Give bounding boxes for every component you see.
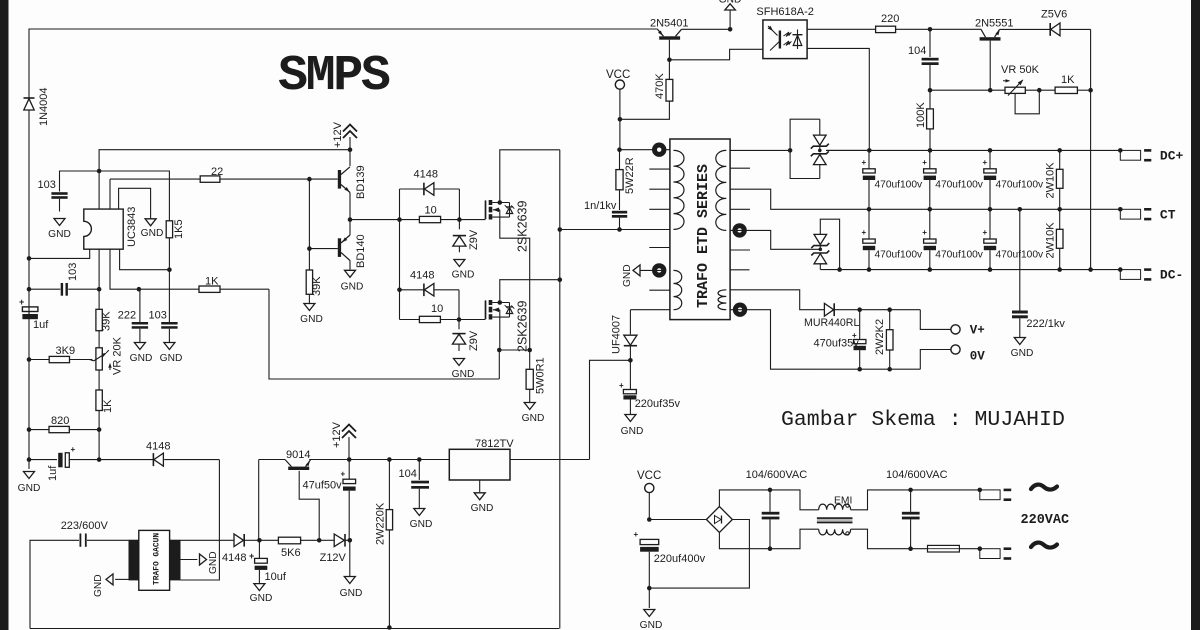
node 1K fb right [1088,88,1093,93]
label V+ [970,324,985,338]
svg-text:100K: 100K [915,102,927,128]
label Z9V upper [468,229,480,250]
label 1uf [33,319,49,331]
capacitor 10uf [255,540,268,583]
label 2W220K [375,502,387,545]
svg-text:220VAC: 220VAC [1021,513,1070,528]
svg-text:470uf100v: 470uf100v [996,180,1044,191]
wire gate combo right vertical upper [458,189,460,229]
wire vcc down [619,119,621,149]
wire UC3843 isense pin [110,249,139,289]
svg-text:103: 103 [149,310,167,322]
wire UC3843 fb pin down [98,249,100,289]
wire 220 to 5551 [930,28,981,30]
wire left rail mid [28,258,30,459]
svg-text:4148: 4148 [414,169,438,181]
label 220uf35v [635,398,681,410]
capacitor 1uf polarized on left rail [19,297,38,319]
title SMPS [278,48,390,105]
node snubber bottom [617,227,622,232]
transformer stub l5 [649,289,670,291]
ground Z12V node [340,540,363,599]
terminal DC+ [1118,148,1151,160]
wire 4148 to gacun [181,460,220,580]
node 820 right [97,427,102,432]
svg-text:GND: GND [130,353,153,364]
node dcplus c [988,148,993,153]
svg-text:Z5V6: Z5V6 [1041,9,1067,21]
wire UC3843 gnd pin [119,188,151,219]
node vcc bridge [647,517,652,522]
label 100K [915,102,927,128]
resistor 5W22R snubber [616,150,623,210]
svg-text:UC3843: UC3843 [126,207,138,247]
wire ac bottom rail [719,529,818,549]
resistor 100K [927,90,934,149]
wire left rail lower to GND [28,460,30,469]
label 4148 supply [222,551,254,564]
label 222 [118,310,136,322]
wire +12V rail bottom [309,459,449,461]
wire base bus [308,179,310,270]
svg-text:2W10K: 2W10K [1045,162,1057,199]
svg-text:4148: 4148 [222,552,246,564]
wire top rail [29,28,658,30]
resistor 820 [29,426,99,432]
node dcm b [928,267,933,272]
label 2W10K lower [1045,222,1057,259]
capacitor 1n/1kv [612,211,627,230]
svg-text:2N5401: 2N5401 [650,18,689,30]
wire aux top to gnd [640,269,666,271]
label 223/600V [61,520,109,532]
label 103 series [67,263,79,281]
label SFH618A-2 [756,6,813,18]
label BD140 [355,234,367,268]
node drain bus fet2 [558,277,563,282]
capacitor 470uf100v c4 [862,209,923,269]
node pot right [1037,88,1042,93]
ground of 103 decoupling [48,219,71,241]
label 4148 aux [146,441,170,453]
ground left rail [18,472,41,495]
diode 4148 supply [234,534,259,547]
svg-text:GND: GND [341,282,364,293]
svg-text:223/600V: 223/600V [61,520,109,532]
svg-text:220uf400v: 220uf400v [654,553,706,565]
node gate upper [457,217,462,222]
svg-text:104/600VAC: 104/600VAC [746,469,808,481]
capacitor 103 decoupling [51,192,67,211]
label 820 [51,415,69,427]
label 5W0R1 [535,357,547,394]
node 10uf [257,538,262,543]
potentiometer VR 20K [89,348,112,370]
svg-text:470uf100v: 470uf100v [935,180,983,191]
op-amp U1 UC3843 body [84,209,123,249]
wire pot to 1K [1025,89,1055,91]
transformer stub r1 [730,167,750,169]
node 0v b [887,367,892,372]
transistor Q1 2SK2639 upper mosfet [486,200,515,220]
capacitor 103 series on fb line [29,283,99,296]
wire ac top rail [719,490,818,510]
node gnd top [728,27,733,32]
transistor Q2 2SK2639 lower mosfet [486,300,515,320]
svg-text:+: + [19,297,24,307]
resistor 39K base [306,270,312,303]
wire 1K5 bottom [120,238,170,270]
ground gacun left [93,574,113,597]
diode 4148 gate upper [400,183,460,196]
wire BD139 base [309,178,337,180]
node dcm d [1057,267,1062,272]
node ct b [928,207,933,212]
ground of 222 [130,343,153,365]
label 104 fb [908,45,926,57]
wire gate upper to fet [459,219,485,221]
capacitor 470uf100v c1 [862,150,923,209]
label UF4007 [611,315,623,354]
resistor 1K5 [166,221,172,238]
transformer stub l3 [649,208,670,210]
svg-text:9014: 9014 [286,449,310,461]
svg-text:+: + [634,530,639,539]
node gate in lower [397,288,402,293]
optocoupler internals [768,26,803,51]
svg-text:3K9: 3K9 [56,345,76,357]
label 1K fb [1061,74,1075,86]
resistor 1K bottom [96,390,102,430]
svg-text:Z9V: Z9V [468,330,480,351]
node source bus b [527,348,532,353]
wire gate combo left vertical [399,189,401,320]
svg-text:+: + [71,445,76,454]
svg-text:10uf: 10uf [265,571,287,583]
right page border bar [1191,0,1200,630]
svg-text:+12V: +12V [331,421,343,448]
wire gate combo right vertical lower [458,290,460,330]
svg-text:470uf100v: 470uf100v [875,250,923,261]
ground gacun right [200,551,220,574]
svg-text:SMPS: SMPS [278,48,390,105]
wire 0v run [814,368,920,370]
svg-text:+12V: +12V [332,121,344,148]
label 470uf35v [814,338,860,350]
svg-text:5K6: 5K6 [281,547,301,559]
wire feedback top [730,290,825,310]
capacitor 470uf100v c6 [983,209,1044,269]
transformer stub l2 [649,188,670,190]
node ct d [1018,207,1023,212]
transistor Q BD140 [338,220,350,270]
label DC+ [1160,149,1184,164]
label 10uf [265,571,287,583]
svg-text:2W10K: 2W10K [1045,222,1057,259]
svg-text:GND: GND [622,264,633,287]
svg-text:Z12V: Z12V [320,552,347,564]
potentiometer VR 50K [1003,79,1039,114]
label 22 [211,166,223,178]
wire vr50k rail [930,89,1005,91]
label MUR440RL [804,317,859,329]
label 4148 gate upper [414,169,438,181]
wire gacun left bottom to ground [115,578,128,580]
wire ct tap [730,189,869,209]
ground aux [622,264,640,287]
svg-text:Z9V: Z9V [468,229,480,250]
transformer pin feedback bottom [733,303,747,317]
node dcm a [867,267,872,272]
capacitor 220uf35v [619,381,636,414]
terminal 0V [920,345,960,369]
wire opto out bottom [807,48,869,149]
svg-text:7812TV: 7812TV [475,438,514,450]
terminal DC- [1118,267,1151,279]
svg-text:4148: 4148 [410,270,434,282]
ground 222/1kv [1011,338,1034,360]
capacitor 104/600VAC 1 [762,490,780,549]
svg-text:GND: GND [410,519,433,530]
svg-text:222/1kv: 222/1kv [1026,318,1065,330]
svg-text:TRAFO GACUN: TRAFO GACUN [153,533,162,585]
node vplus a [857,307,862,312]
label 1K isense [205,276,219,288]
svg-text:+: + [922,228,927,237]
wire base to opto [669,49,763,60]
ground BD140 [341,270,364,292]
svg-text:BD140: BD140 [355,234,367,268]
svg-text:GND: GND [719,0,742,6]
svg-text:22: 22 [211,166,223,178]
wire UC3843 comp pin to left rail [29,249,90,258]
wire left rail upper [28,29,30,99]
transistor Q BD139 [338,150,350,220]
power +12V arrow bottom [342,425,356,460]
wire UC3843 vref to driver rail [99,150,350,209]
svg-text:+: + [983,158,988,167]
inductor EMI choke top [819,504,851,510]
power VCC top terminal [606,69,630,119]
svg-text:820: 820 [51,415,69,427]
label 2SK2639 lower [516,301,530,352]
wire vcc to bridge [649,519,706,521]
label Z5V6 [1041,9,1067,21]
node driver out [348,217,353,222]
resistor 10 upper [400,216,460,222]
node 0v a [857,367,862,372]
svg-text:GND: GND [1011,348,1034,359]
node rect neg loop [837,267,842,272]
label 4148 gate lower [410,270,434,282]
svg-text:2SK2639: 2SK2639 [516,301,530,352]
wire feedback bottom [730,310,814,370]
wire z5v6 down to dcminus [1090,29,1092,267]
transformer aux winding left [674,270,682,309]
wire source bus [499,349,529,351]
svg-text:103: 103 [67,263,79,281]
svg-text:SFH618A-2: SFH618A-2 [756,6,813,18]
inductor EMI choke bottom [819,529,851,535]
diode 4148 gate lower [400,284,460,297]
svg-text:+: + [249,551,254,561]
label 1K5 [173,219,185,239]
transformer stub l4 [649,247,670,249]
label 2W2K2 [874,319,886,355]
resistor 3K9 [29,356,92,362]
svg-text:1N4004: 1N4004 [38,87,50,126]
svg-text:1uf: 1uf [33,319,49,331]
svg-text:DC+: DC+ [1160,149,1184,164]
label 470K [654,73,666,99]
svg-text:GND: GND [452,270,475,281]
label 47uf50v [303,480,343,492]
wire 9014 base [299,471,319,540]
label 104 reg [399,468,417,480]
label 2W10K upper [1045,162,1057,199]
label VR 50K [1001,64,1040,76]
capacitor 220uf400v [634,530,659,588]
svg-text:5W0R1: 5W0R1 [535,357,547,394]
svg-text:1K5: 1K5 [173,219,185,239]
wire 7812 output [510,459,590,461]
wire fet1 drain riser [500,150,560,203]
diode UF4007 [624,310,670,389]
terminal AC neutral [978,546,1012,558]
label BD139 [355,165,367,199]
svg-text:DC-: DC- [1160,268,1183,283]
transformer feedback winding right [718,290,726,310]
capacitor 470uf100v c2 [922,150,983,209]
capacitor 104 fb [922,29,939,90]
wire rect pos out [826,149,869,151]
wire ac bottom to fuse [851,529,928,549]
label 103 decoupling [38,179,56,191]
node fb junction [97,287,102,292]
transistor Q 2N5401 [658,29,731,39]
wire drain bus vertical [559,150,561,629]
terminal V+ [920,310,960,334]
svg-text:220uf35v: 220uf35v [635,398,681,410]
node ac bot cap1 [768,546,773,551]
node ac top cap1 [768,488,773,493]
svg-text:470uf100v: 470uf100v [875,180,923,191]
label 5K6 [281,547,301,559]
capacitor 47uf50v [341,460,356,541]
label UC3843 [126,207,138,247]
transformer stub l1 [649,168,670,170]
svg-text:Gambar Skema : MUJAHID: Gambar Skema : MUJAHID [781,408,1065,432]
label 222/1kv [1026,318,1065,330]
wire gacun right top [181,539,235,541]
svg-text:MUR440RL: MUR440RL [804,317,859,329]
svg-text:GND: GND [621,426,644,437]
svg-text:CT: CT [1160,208,1176,223]
capacitor 222/1kv [1012,209,1028,337]
wire fet1 source path [500,217,530,350]
svg-text:2W2K2: 2W2K2 [874,319,886,355]
capacitor 103 on comp [161,270,177,342]
diode 4148 aux [99,453,219,466]
label CT [1160,208,1176,223]
node 220 out [928,27,933,32]
resistor 2W2K2 [886,310,893,370]
node 104 reg top [417,457,422,462]
wire gate lower to fet [459,319,486,321]
capacitor 470uf100v c3 [983,150,1044,209]
svg-text:GND: GND [471,503,494,514]
ground UC3843 pin [141,219,164,239]
label 220VAC [1021,513,1070,528]
transformer pin aux top [652,263,666,277]
wire 2N5551 base [989,41,991,91]
svg-text:39K: 39K [101,311,113,331]
node 2N5401 base [667,58,672,63]
label EMI [834,496,852,507]
transformer TRAFO GACUN [129,530,181,590]
wire snubber bottom run [560,229,670,231]
node vcc 470k [618,117,623,122]
wire 1K to 1uf wire [98,430,100,460]
optocoupler U2 SFH618A-2 box [763,20,807,59]
node dcplus b [928,148,933,153]
diode 1N4004 [24,98,35,258]
node on 1uf wire [97,457,102,462]
wire 9014 collector drop [258,460,260,541]
node isense [137,287,142,292]
svg-text:222: 222 [118,310,136,322]
wire bottom rail [30,628,559,630]
resistor 1K fb [1055,87,1091,93]
symbol ~ live [1031,485,1057,490]
svg-text:1n/1kv: 1n/1kv [584,200,617,212]
node drain bus snubber [558,227,563,232]
ground 220uf400v [640,588,663,630]
left page border bar [0,0,9,630]
svg-text:47uf50v: 47uf50v [303,480,343,492]
terminal CT [1118,207,1151,219]
transformer pin secondary bottom [732,223,746,237]
svg-text:GND: GND [18,483,41,494]
capacitor 470uf100v c5 [922,209,983,269]
label TRAFO GACUN [153,533,162,585]
capacitor 1uf series [29,445,99,467]
label 104/600VAC 1 [746,469,808,481]
ground Z9V upper [452,260,475,281]
label 1K bottom [102,399,114,413]
node UF4007 out [628,358,633,363]
resistor 5W0R1 [526,350,533,402]
capacitor 470uf35v [852,310,866,370]
label 10 lower [431,303,443,315]
ground 10uf [250,584,273,604]
emi dot top [846,504,849,507]
power VCC bottom terminal [637,470,661,520]
node dcm c [988,267,993,272]
transformer T1 TRAFO ETD box [670,139,730,320]
ground 7812 [471,480,494,514]
resistor 1K isense [139,286,269,292]
wire fet2 source path [499,317,501,350]
svg-text:V+: V+ [970,324,985,338]
label TRAFO ETD SERIES [695,164,712,308]
svg-text:BD139: BD139 [355,165,367,199]
caption Gambar Skema : MUJAHID [781,408,1065,432]
node 9014 base bottom [317,538,322,543]
regulator 7812TV [449,449,510,480]
node BD base [307,177,312,182]
transformer secondary winding [716,150,727,230]
